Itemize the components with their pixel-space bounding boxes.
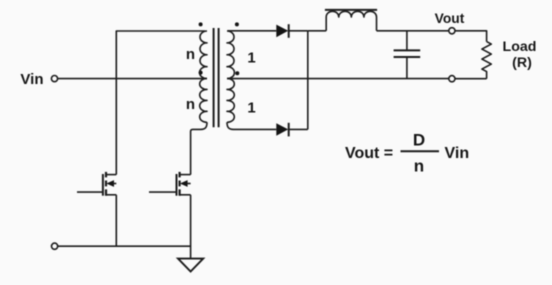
terminal Vin input	[51, 76, 57, 82]
transformer T1 secondary winding bottom (1)	[227, 78, 234, 122]
transformer T1 primary winding top (n)	[200, 31, 207, 79]
transistor Q2	[149, 172, 191, 196]
svg-text:n: n	[186, 96, 195, 113]
transistor Q1	[77, 172, 116, 196]
wire secondary bottom to D2 anode	[227, 122, 276, 129]
terminal Vout top	[449, 28, 455, 34]
phase dot primary top	[199, 22, 203, 26]
wire top rail: Q1 drain to primary top	[116, 31, 205, 175]
inductor L1	[325, 10, 377, 31]
svg-text:Vin: Vin	[20, 71, 43, 88]
phase dot secondary mid	[235, 71, 239, 75]
wire Vin to primary center tap	[58, 78, 207, 80]
diode D1	[276, 24, 288, 38]
svg-text:n: n	[186, 46, 195, 63]
diode D2	[276, 123, 288, 137]
transformer T1 primary winding bottom (n)	[200, 78, 207, 122]
wire secondary top to D1 anode	[228, 30, 277, 32]
wire D2 cathode to node	[289, 128, 308, 130]
wire node to inductor	[308, 30, 326, 32]
phase dot primary mid	[199, 71, 203, 75]
wire rectifier node vertical	[307, 31, 309, 130]
wire Q2 source to ground	[190, 195, 192, 259]
wire bottom rail	[58, 245, 191, 247]
svg-text:Vin: Vin	[445, 145, 470, 162]
svg-text:Vout: Vout	[435, 11, 465, 26]
formula Vout = D/n Vin	[345, 131, 469, 176]
ground	[178, 259, 203, 272]
wire Vout to load	[455, 31, 487, 42]
terminal output bottom	[449, 76, 455, 82]
phase dot secondary top	[235, 22, 239, 26]
svg-text:Vout =: Vout =	[345, 145, 393, 162]
svg-text:n: n	[414, 157, 424, 176]
svg-text:1: 1	[247, 50, 255, 67]
svg-text:D: D	[413, 131, 425, 150]
capacitor C1	[394, 31, 421, 79]
resistor Load R	[482, 42, 491, 79]
wire inductor to Vout	[377, 30, 449, 32]
wire Q1 source to bottom rail	[115, 195, 117, 246]
transformer T1 secondary winding top (1)	[227, 31, 234, 79]
wire D1 cathode to node	[289, 30, 308, 32]
svg-text:1: 1	[247, 100, 255, 117]
svg-text:(R): (R)	[512, 55, 532, 71]
wire load bottom to terminal	[455, 78, 487, 80]
label Load (R)	[503, 39, 537, 71]
wire secondary center tap return rail	[227, 78, 449, 80]
wire primary bottom to Q2 drain	[191, 122, 207, 174]
terminal input bottom	[52, 243, 58, 249]
transformer T1 core	[214, 28, 219, 127]
svg-text:Load: Load	[503, 39, 537, 55]
